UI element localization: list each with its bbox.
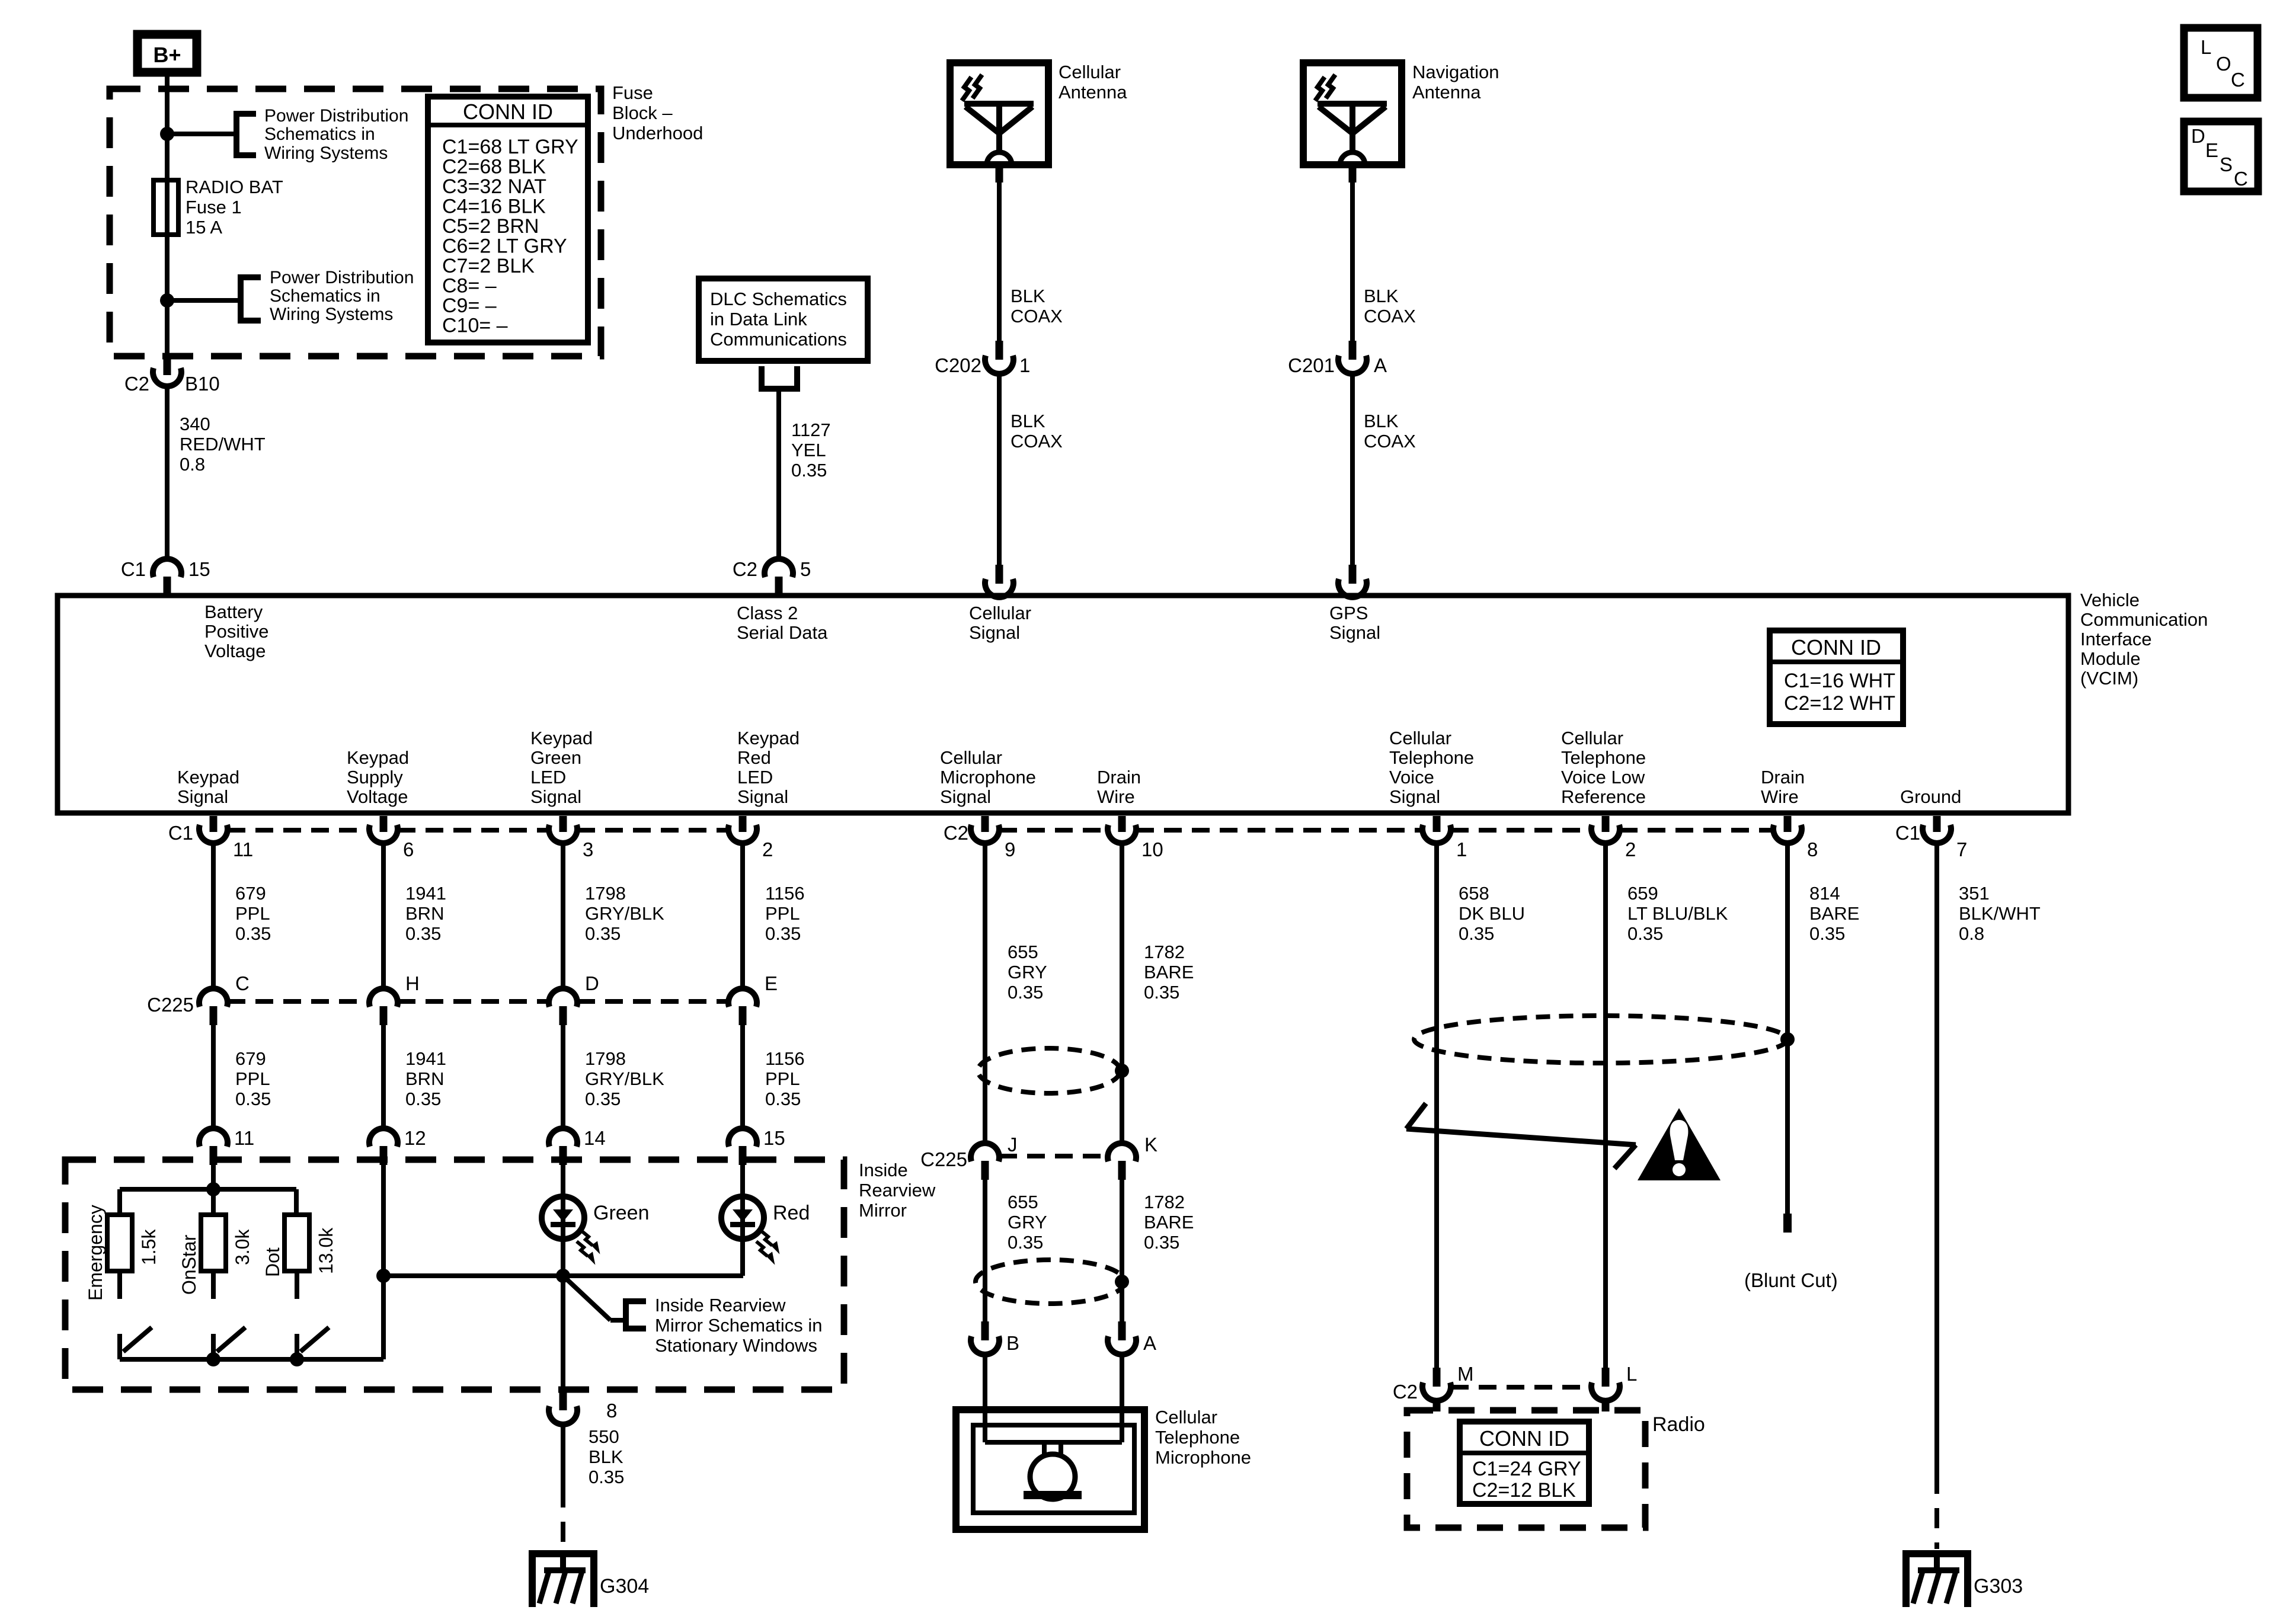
node junction switch bus onstar <box>206 1352 220 1366</box>
svg-text:(VCIM): (VCIM) <box>2080 668 2138 689</box>
svg-text:Cellular: Cellular <box>1155 1407 1217 1427</box>
svg-text:Keypad: Keypad <box>530 728 593 748</box>
connector VCIM pin 2 at x1253 <box>739 816 747 832</box>
svg-text:0.35: 0.35 <box>585 923 621 944</box>
wire keypad supply VCIM to C225 <box>381 844 386 987</box>
svg-text:C10= –: C10= – <box>442 315 508 337</box>
wire branch to dot resistor <box>294 1189 299 1215</box>
svg-text:Signal: Signal <box>177 786 228 807</box>
wire 550 BLK segment <box>561 1426 565 1487</box>
svg-text:1: 1 <box>1019 354 1030 376</box>
connector mirror pin 15 <box>728 1128 757 1147</box>
connector mirror pin 11 <box>199 1128 228 1147</box>
svg-text:E: E <box>765 972 778 994</box>
connector C225 cavity H <box>369 988 398 1007</box>
svg-text:Interface: Interface <box>2080 629 2152 649</box>
blunt cut end wire 814 <box>1783 1214 1792 1233</box>
svg-text:S: S <box>2220 153 2233 175</box>
switch below resistor at x360 <box>211 1271 216 1299</box>
svg-text:1: 1 <box>1456 838 1467 860</box>
switch below resistor at x501 <box>295 1271 299 1299</box>
svg-text:C201: C201 <box>1288 354 1335 376</box>
svg-text:L: L <box>2201 36 2211 58</box>
connector VCIM pin 2 at x2709 <box>1602 816 1610 832</box>
svg-text:0.35: 0.35 <box>1144 982 1179 1003</box>
LED red keypad <box>740 1165 745 1276</box>
svg-text:DLC Schematics: DLC Schematics <box>710 289 847 309</box>
svg-text:Vehicle: Vehicle <box>2080 590 2140 610</box>
wire branch to power distribution upper <box>167 132 236 136</box>
svg-text:C225: C225 <box>147 994 194 1016</box>
svg-text:A: A <box>1143 1332 1156 1354</box>
node junction green led return <box>556 1269 570 1283</box>
wire led return bus <box>383 1273 743 1278</box>
svg-text:15: 15 <box>188 558 210 580</box>
connector C201 A <box>1349 341 1357 360</box>
wire navigation antenna coax lower <box>1350 376 1355 565</box>
svg-text:O: O <box>2216 53 2231 75</box>
connector mirror output 8 <box>559 1391 567 1410</box>
svg-text:Drain: Drain <box>1097 767 1141 788</box>
svg-text:B+: B+ <box>153 43 181 67</box>
svg-text:C2: C2 <box>124 373 149 395</box>
wire 1127 YEL segment <box>776 389 781 559</box>
svg-text:0.35: 0.35 <box>765 1089 801 1109</box>
wire resistor top bus <box>120 1187 296 1192</box>
svg-text:Supply: Supply <box>347 767 403 788</box>
connector C225 cavity E <box>728 988 757 1007</box>
symbol LOC box <box>2184 28 2257 98</box>
svg-text:0.35: 0.35 <box>1008 982 1043 1003</box>
svg-text:659: 659 <box>1627 883 1658 904</box>
svg-text:8: 8 <box>606 1400 617 1422</box>
svg-text:1782: 1782 <box>1144 1192 1185 1212</box>
svg-text:0.35: 0.35 <box>405 1089 441 1109</box>
svg-text:BLK: BLK <box>1364 411 1399 431</box>
svg-text:1156: 1156 <box>765 1048 805 1069</box>
node junction keypad signal bus <box>206 1182 220 1196</box>
svg-text:Keypad: Keypad <box>737 728 800 748</box>
svg-text:CONN ID: CONN ID <box>1791 635 1881 660</box>
svg-text:C2: C2 <box>733 558 757 580</box>
svg-text:0.35: 0.35 <box>1809 923 1845 944</box>
svg-text:B: B <box>1006 1332 1019 1354</box>
svg-text:C4=16 BLK: C4=16 BLK <box>442 196 546 218</box>
svg-text:6: 6 <box>403 838 414 860</box>
svg-text:C1: C1 <box>168 822 193 844</box>
svg-text:C3=32 NAT: C3=32 NAT <box>442 175 546 198</box>
wire 351 BLK/WHT segment <box>1934 844 1939 1474</box>
wire pin12 keypad supply down <box>381 1165 386 1359</box>
connector microphone B <box>981 1321 989 1340</box>
svg-text:1798: 1798 <box>585 1048 626 1069</box>
svg-text:Telephone: Telephone <box>1561 747 1646 768</box>
wire 550 BLK dashed to ground <box>561 1487 565 1549</box>
svg-text:C: C <box>2234 168 2248 190</box>
svg-text:BLK: BLK <box>589 1446 623 1467</box>
warning triangle symbol <box>1638 1108 1721 1180</box>
wire pin11 into mirror <box>211 1165 216 1215</box>
svg-text:Block –: Block – <box>612 103 673 123</box>
wire 814 BARE segment <box>1785 844 1790 1215</box>
svg-text:11: 11 <box>234 1127 254 1149</box>
wire 655 GRY upper segment <box>983 844 987 1141</box>
svg-text:LED: LED <box>530 767 566 788</box>
node junction drain telephone pair <box>1780 1032 1795 1046</box>
wire keypad green C225 to mirror <box>561 1025 565 1127</box>
dashed harness line C225 left row <box>228 999 369 1004</box>
svg-text:Class 2: Class 2 <box>737 603 798 623</box>
svg-text:COAX: COAX <box>1011 431 1063 452</box>
wire keypad signal C225 to mirror <box>211 1025 216 1127</box>
connector VCIM pin 8 at x3016 <box>1784 816 1792 832</box>
svg-text:Signal: Signal <box>969 622 1020 643</box>
svg-text:Wiring Systems: Wiring Systems <box>264 143 388 163</box>
connector C2 B10 fuse block output <box>164 359 171 375</box>
svg-text:11: 11 <box>233 838 253 860</box>
svg-text:Stationary Windows: Stationary Windows <box>655 1335 817 1356</box>
dashed harness line C225 JK <box>999 1154 1108 1158</box>
svg-text:Voice Low: Voice Low <box>1561 767 1645 788</box>
dashed box Inside Rearview Mirror <box>65 1160 844 1390</box>
svg-text:Green: Green <box>593 1202 650 1224</box>
wire keypad red C225 to mirror <box>740 1025 745 1127</box>
svg-text:3.0k: 3.0k <box>232 1229 253 1265</box>
svg-text:Wire: Wire <box>1761 786 1799 807</box>
svg-text:Radio: Radio <box>1652 1413 1705 1436</box>
svg-text:C2=12 BLK: C2=12 BLK <box>1472 1479 1576 1502</box>
connector C225 cavity K <box>1108 1143 1136 1161</box>
svg-text:Telephone: Telephone <box>1389 747 1474 768</box>
svg-text:C2=68 BLK: C2=68 BLK <box>442 156 546 178</box>
cellular antenna symbol <box>950 63 1048 165</box>
svg-text:0.35: 0.35 <box>1459 923 1494 944</box>
twisted pair ellipse mic upper <box>978 1048 1120 1093</box>
wire 655 GRY lower segment <box>983 1180 987 1321</box>
svg-text:A: A <box>1374 354 1387 376</box>
svg-text:BLK: BLK <box>1011 286 1045 306</box>
svg-text:Signal: Signal <box>1389 786 1440 807</box>
svg-text:7: 7 <box>1956 838 1967 860</box>
wire keypad green led VCIM to C225 <box>561 844 565 987</box>
wire lower junction to connector B10 <box>165 300 170 359</box>
box DLC Schematics in Data Link Communications <box>699 279 868 361</box>
svg-text:0.35: 0.35 <box>235 923 271 944</box>
svg-text:0.35: 0.35 <box>791 460 827 481</box>
svg-text:0.8: 0.8 <box>180 454 205 475</box>
warning pointer arrow <box>1406 1103 1426 1129</box>
svg-text:0.35: 0.35 <box>765 923 801 944</box>
wire 351 dashed to ground <box>1934 1474 1939 1549</box>
svg-text:1.5k: 1.5k <box>138 1229 159 1265</box>
connector C1 15 VCIM battery input <box>153 559 181 577</box>
svg-text:BLK/WHT: BLK/WHT <box>1959 903 2041 924</box>
wire mic B lead <box>983 1356 987 1442</box>
bracket symbol DLC output <box>762 366 797 389</box>
connector VCIM pin 9 at x1662 <box>981 816 989 832</box>
connector VCIM pin 1 at x2424 <box>1433 816 1441 832</box>
svg-text:9: 9 <box>1005 838 1015 860</box>
svg-text:PPL: PPL <box>235 1068 270 1089</box>
power symbol B+ battery feed <box>137 34 197 72</box>
svg-text:Dot: Dot <box>262 1247 283 1277</box>
svg-text:Power Distribution: Power Distribution <box>264 106 408 126</box>
svg-text:15: 15 <box>763 1127 785 1149</box>
resistor OnStar 3.0k <box>201 1215 226 1271</box>
svg-text:COAX: COAX <box>1011 306 1063 327</box>
connector C225 cavity J <box>971 1143 999 1161</box>
svg-text:Schematics in: Schematics in <box>270 286 380 306</box>
wire branch to emergency resistor <box>117 1189 122 1215</box>
svg-text:0.35: 0.35 <box>589 1467 624 1487</box>
svg-text:LED: LED <box>737 767 773 788</box>
svg-text:BARE: BARE <box>1144 1212 1194 1233</box>
svg-text:BARE: BARE <box>1809 903 1859 924</box>
svg-text:C: C <box>235 972 250 994</box>
svg-text:Voice: Voice <box>1389 767 1434 788</box>
svg-text:10: 10 <box>1141 838 1163 860</box>
svg-text:J: J <box>1008 1134 1018 1156</box>
svg-text:B10: B10 <box>185 373 220 395</box>
svg-text:C1: C1 <box>121 558 146 580</box>
wire cellular antenna coax upper <box>996 165 1003 183</box>
svg-text:CONN ID: CONN ID <box>463 100 553 124</box>
svg-text:C9= –: C9= – <box>442 295 497 317</box>
node junction drain mic lower <box>1115 1275 1129 1289</box>
svg-text:Communication: Communication <box>2080 609 2208 630</box>
svg-text:L: L <box>1626 1363 1637 1385</box>
table CONN ID radio <box>1460 1422 1589 1504</box>
svg-text:0.35: 0.35 <box>1144 1232 1179 1253</box>
connector C202 1 <box>996 341 1003 360</box>
connector mirror pin 12 <box>369 1128 398 1147</box>
connector VCIM pin 7 at x3268 <box>1933 816 1941 832</box>
connector C225 cavity D <box>549 988 577 1007</box>
svg-text:Red: Red <box>737 747 771 768</box>
svg-text:COAX: COAX <box>1364 431 1416 452</box>
connector VCIM pin 6 at x647 <box>380 816 388 832</box>
svg-text:G304: G304 <box>600 1575 649 1598</box>
twisted pair ellipse mic lower <box>976 1260 1125 1304</box>
svg-text:G303: G303 <box>1974 1575 2023 1598</box>
svg-text:C6=2 LT GRY: C6=2 LT GRY <box>442 235 567 258</box>
svg-text:C1=68 LT GRY: C1=68 LT GRY <box>442 136 578 158</box>
connector mirror pin 14 <box>549 1128 577 1147</box>
wire mic A lead <box>1120 1356 1124 1442</box>
dashed box Fuse Block - Underhood <box>110 89 601 356</box>
bracket symbol mirror schematics note <box>626 1301 646 1329</box>
svg-text:Wire: Wire <box>1097 786 1135 807</box>
svg-text:0.35: 0.35 <box>405 923 441 944</box>
svg-text:Cellular: Cellular <box>1561 728 1623 748</box>
svg-text:Red: Red <box>773 1202 810 1224</box>
table CONN ID fuse block <box>428 97 588 343</box>
wire keypad signal VCIM to C225 <box>211 844 216 987</box>
stub L into radio <box>1602 1398 1610 1411</box>
connector C2 5 VCIM class2 input <box>765 559 793 577</box>
svg-text:Cellular: Cellular <box>1389 728 1451 748</box>
symbol DESC box <box>2184 121 2258 191</box>
svg-text:679: 679 <box>235 883 266 904</box>
svg-text:OnStar: OnStar <box>178 1234 200 1295</box>
svg-text:814: 814 <box>1809 883 1840 904</box>
svg-text:1782: 1782 <box>1144 942 1185 962</box>
svg-text:BLK: BLK <box>1364 286 1399 306</box>
svg-text:BLK: BLK <box>1011 411 1045 431</box>
svg-text:8: 8 <box>1807 838 1818 860</box>
svg-text:5: 5 <box>800 558 811 580</box>
wire switch common bus <box>120 1357 383 1362</box>
wire branch to power distribution lower <box>167 298 241 303</box>
svg-text:Mirror Schematics in: Mirror Schematics in <box>655 1315 823 1336</box>
svg-text:C2: C2 <box>1393 1381 1418 1403</box>
pointer line to stationary windows note <box>563 1276 610 1320</box>
svg-text:in Data Link: in Data Link <box>710 309 807 329</box>
svg-text:C1=24 GRY: C1=24 GRY <box>1472 1458 1581 1480</box>
svg-text:Keypad: Keypad <box>347 747 409 768</box>
svg-text:1127: 1127 <box>791 420 831 440</box>
node junction dot upper feed <box>160 127 174 141</box>
connector C225 cavity C <box>199 988 228 1007</box>
svg-text:BARE: BARE <box>1144 962 1194 982</box>
svg-text:GRY: GRY <box>1008 1212 1047 1233</box>
svg-text:LT BLU/BLK: LT BLU/BLK <box>1627 903 1728 924</box>
ground G303 <box>1904 1550 1969 1557</box>
wire 1782 BARE lower segment <box>1120 1180 1124 1321</box>
svg-text:(Blunt Cut): (Blunt Cut) <box>1744 1269 1838 1291</box>
svg-text:BRN: BRN <box>405 1068 444 1089</box>
connector VCIM pin 11 at x360 <box>210 816 218 832</box>
navigation antenna symbol <box>1303 63 1402 165</box>
svg-text:655: 655 <box>1008 1192 1038 1212</box>
svg-text:GRY/BLK: GRY/BLK <box>585 903 664 924</box>
wire navigation antenna coax upper <box>1349 165 1357 183</box>
fuse RADIO BAT Fuse 1 15 A <box>154 180 178 235</box>
switch below resistor at x202 <box>117 1271 122 1299</box>
svg-text:Mirror: Mirror <box>859 1200 907 1221</box>
svg-text:GRY: GRY <box>1008 962 1047 982</box>
svg-text:Underhood: Underhood <box>612 123 703 143</box>
svg-text:Green: Green <box>530 747 581 768</box>
bracket symbol upper power distribution <box>236 114 256 155</box>
svg-text:C202: C202 <box>935 354 981 376</box>
svg-text:C8= –: C8= – <box>442 275 497 297</box>
svg-text:351: 351 <box>1959 883 1990 904</box>
svg-text:C2: C2 <box>944 822 968 844</box>
svg-text:12: 12 <box>404 1127 426 1149</box>
svg-text:YEL: YEL <box>791 440 826 460</box>
svg-text:0.8: 0.8 <box>1959 923 1984 944</box>
svg-text:RADIO BAT: RADIO BAT <box>186 177 283 197</box>
svg-text:PPL: PPL <box>765 1068 800 1089</box>
svg-text:Cellular: Cellular <box>940 747 1002 768</box>
LED green keypad <box>561 1165 565 1276</box>
connector cellular signal VCIM coax entry <box>996 565 1003 584</box>
wire 340 RED/WHT segment <box>165 388 170 559</box>
connector VCIM pin 10 at x1893 <box>1118 816 1126 832</box>
svg-text:1941: 1941 <box>405 883 446 904</box>
svg-text:Module: Module <box>2080 648 2141 669</box>
svg-text:655: 655 <box>1008 942 1038 962</box>
svg-text:0.35: 0.35 <box>1627 923 1663 944</box>
svg-text:Inside: Inside <box>859 1160 908 1180</box>
svg-text:Inside Rearview: Inside Rearview <box>655 1295 786 1315</box>
svg-text:15 A: 15 A <box>186 217 222 238</box>
connector VCIM pin 3 at x950 <box>559 816 567 832</box>
module VCIM box <box>57 596 2068 813</box>
svg-text:Antenna: Antenna <box>1412 82 1481 103</box>
microphone element symbol <box>985 1440 1122 1445</box>
svg-text:H: H <box>405 972 420 994</box>
svg-text:D: D <box>2191 125 2205 147</box>
svg-text:Antenna: Antenna <box>1059 82 1127 103</box>
svg-text:Signal: Signal <box>737 786 788 807</box>
ground G304 <box>530 1550 596 1557</box>
svg-text:Navigation: Navigation <box>1412 62 1499 82</box>
svg-text:13.0k: 13.0k <box>315 1227 337 1274</box>
svg-text:Signal: Signal <box>530 786 581 807</box>
svg-text:GPS: GPS <box>1329 603 1368 623</box>
svg-text:340: 340 <box>180 414 210 434</box>
resistor Dot 13.0k <box>284 1215 309 1271</box>
svg-text:C7=2 BLK: C7=2 BLK <box>442 255 535 277</box>
svg-text:M: M <box>1457 1363 1474 1385</box>
svg-text:K: K <box>1144 1134 1157 1156</box>
stub M into radio <box>1433 1398 1441 1411</box>
wire 658 DK BLU segment <box>1434 844 1439 1368</box>
connector C2 M radio <box>1433 1368 1441 1387</box>
svg-text:0.35: 0.35 <box>1008 1232 1043 1253</box>
svg-text:14: 14 <box>584 1127 606 1149</box>
svg-text:BRN: BRN <box>405 903 444 924</box>
svg-text:2: 2 <box>1625 838 1636 860</box>
connector microphone A <box>1118 1321 1126 1340</box>
svg-text:C1=16 WHT: C1=16 WHT <box>1784 670 1895 692</box>
svg-text:2: 2 <box>762 838 773 860</box>
svg-text:DK BLU: DK BLU <box>1459 903 1525 924</box>
svg-text:679: 679 <box>235 1048 266 1069</box>
node junction dot lower feed <box>160 293 174 308</box>
svg-text:Signal: Signal <box>940 786 991 807</box>
wire cellular antenna coax lower <box>997 376 1002 565</box>
wire keypad supply C225 to mirror <box>381 1025 386 1127</box>
svg-text:Ground: Ground <box>1900 786 1961 807</box>
svg-text:0.35: 0.35 <box>235 1089 271 1109</box>
wire B+ to fuse block <box>165 72 170 134</box>
svg-text:Keypad: Keypad <box>177 767 239 788</box>
wire 1782 BARE upper segment <box>1120 844 1124 1141</box>
svg-text:1798: 1798 <box>585 883 626 904</box>
svg-text:C2=12 WHT: C2=12 WHT <box>1784 692 1895 715</box>
connector C2 L radio <box>1602 1368 1610 1387</box>
svg-text:Signal: Signal <box>1329 622 1380 643</box>
dashed harness line C2 pin group <box>999 828 1108 833</box>
table CONN ID VCIM <box>1770 630 1903 724</box>
svg-text:CONN ID: CONN ID <box>1479 1426 1569 1451</box>
svg-text:Cellular: Cellular <box>1059 62 1121 82</box>
svg-text:COAX: COAX <box>1364 306 1416 327</box>
dashed harness line radio C2 <box>1451 1385 1591 1390</box>
svg-text:Telephone: Telephone <box>1155 1427 1240 1448</box>
svg-text:D: D <box>585 972 599 994</box>
bracket symbol lower power distribution <box>241 277 261 321</box>
dashed box Radio <box>1407 1410 1645 1528</box>
svg-text:Microphone: Microphone <box>1155 1447 1251 1468</box>
svg-text:C: C <box>2231 69 2245 91</box>
svg-text:Reference: Reference <box>1561 786 1646 807</box>
svg-text:Cellular: Cellular <box>969 603 1031 623</box>
svg-text:Battery: Battery <box>204 601 263 622</box>
